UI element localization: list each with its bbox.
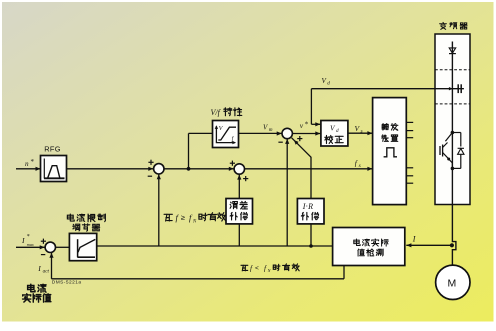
- svg-text:n: n: [25, 160, 29, 168]
- svg-text:N: N: [267, 268, 271, 273]
- svg-text:s: s: [359, 163, 361, 169]
- svg-text:M: M: [448, 278, 457, 290]
- svg-text:DMS-5221a: DMS-5221a: [52, 279, 82, 285]
- svg-text:act: act: [43, 269, 50, 275]
- svg-text:*: *: [305, 121, 309, 129]
- svg-text:≥: ≥: [181, 213, 185, 222]
- svg-text:I: I: [21, 236, 25, 245]
- svg-text:max: max: [27, 242, 34, 247]
- svg-text:d: d: [336, 128, 339, 134]
- svg-text:V: V: [263, 124, 268, 132]
- svg-text:m: m: [269, 127, 273, 133]
- svg-text:s: s: [361, 128, 363, 134]
- svg-text:*: *: [31, 158, 35, 166]
- svg-text:<: <: [255, 265, 259, 272]
- svg-text:I: I: [37, 264, 41, 273]
- svg-text:RFG: RFG: [44, 144, 61, 153]
- svg-text:I·R: I·R: [302, 202, 313, 211]
- svg-text:I: I: [412, 235, 416, 244]
- svg-text:*: *: [27, 234, 30, 240]
